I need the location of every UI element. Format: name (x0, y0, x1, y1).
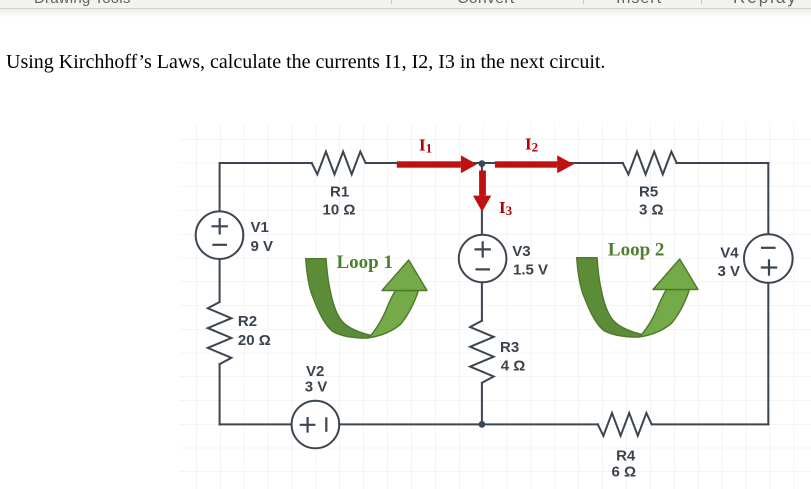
svg-text:Loop 2: Loop 2 (608, 240, 665, 261)
svg-text:V4: V4 (720, 244, 739, 261)
svg-text:6 Ω: 6 Ω (612, 464, 637, 481)
svg-text:R5: R5 (639, 184, 658, 201)
svg-text:V3: V3 (512, 243, 530, 260)
svg-text:V2: V2 (306, 363, 324, 380)
svg-text:4 Ω: 4 Ω (501, 358, 526, 375)
svg-text:R3: R3 (500, 339, 519, 356)
svg-text:10 Ω: 10 Ω (323, 202, 356, 219)
svg-text:R4: R4 (616, 448, 636, 465)
svg-text:R2: R2 (238, 313, 257, 330)
svg-text:3 V: 3 V (305, 379, 328, 396)
svg-text:20 Ω: 20 Ω (238, 332, 271, 349)
svg-text:3 V: 3 V (718, 263, 741, 280)
svg-text:V1: V1 (251, 219, 269, 236)
svg-text:1.5 V: 1.5 V (513, 261, 548, 278)
svg-text:R1: R1 (330, 184, 349, 201)
svg-text:Loop 1: Loop 1 (337, 252, 394, 273)
svg-text:9 V: 9 V (251, 238, 274, 255)
svg-text:3 Ω: 3 Ω (639, 202, 664, 219)
